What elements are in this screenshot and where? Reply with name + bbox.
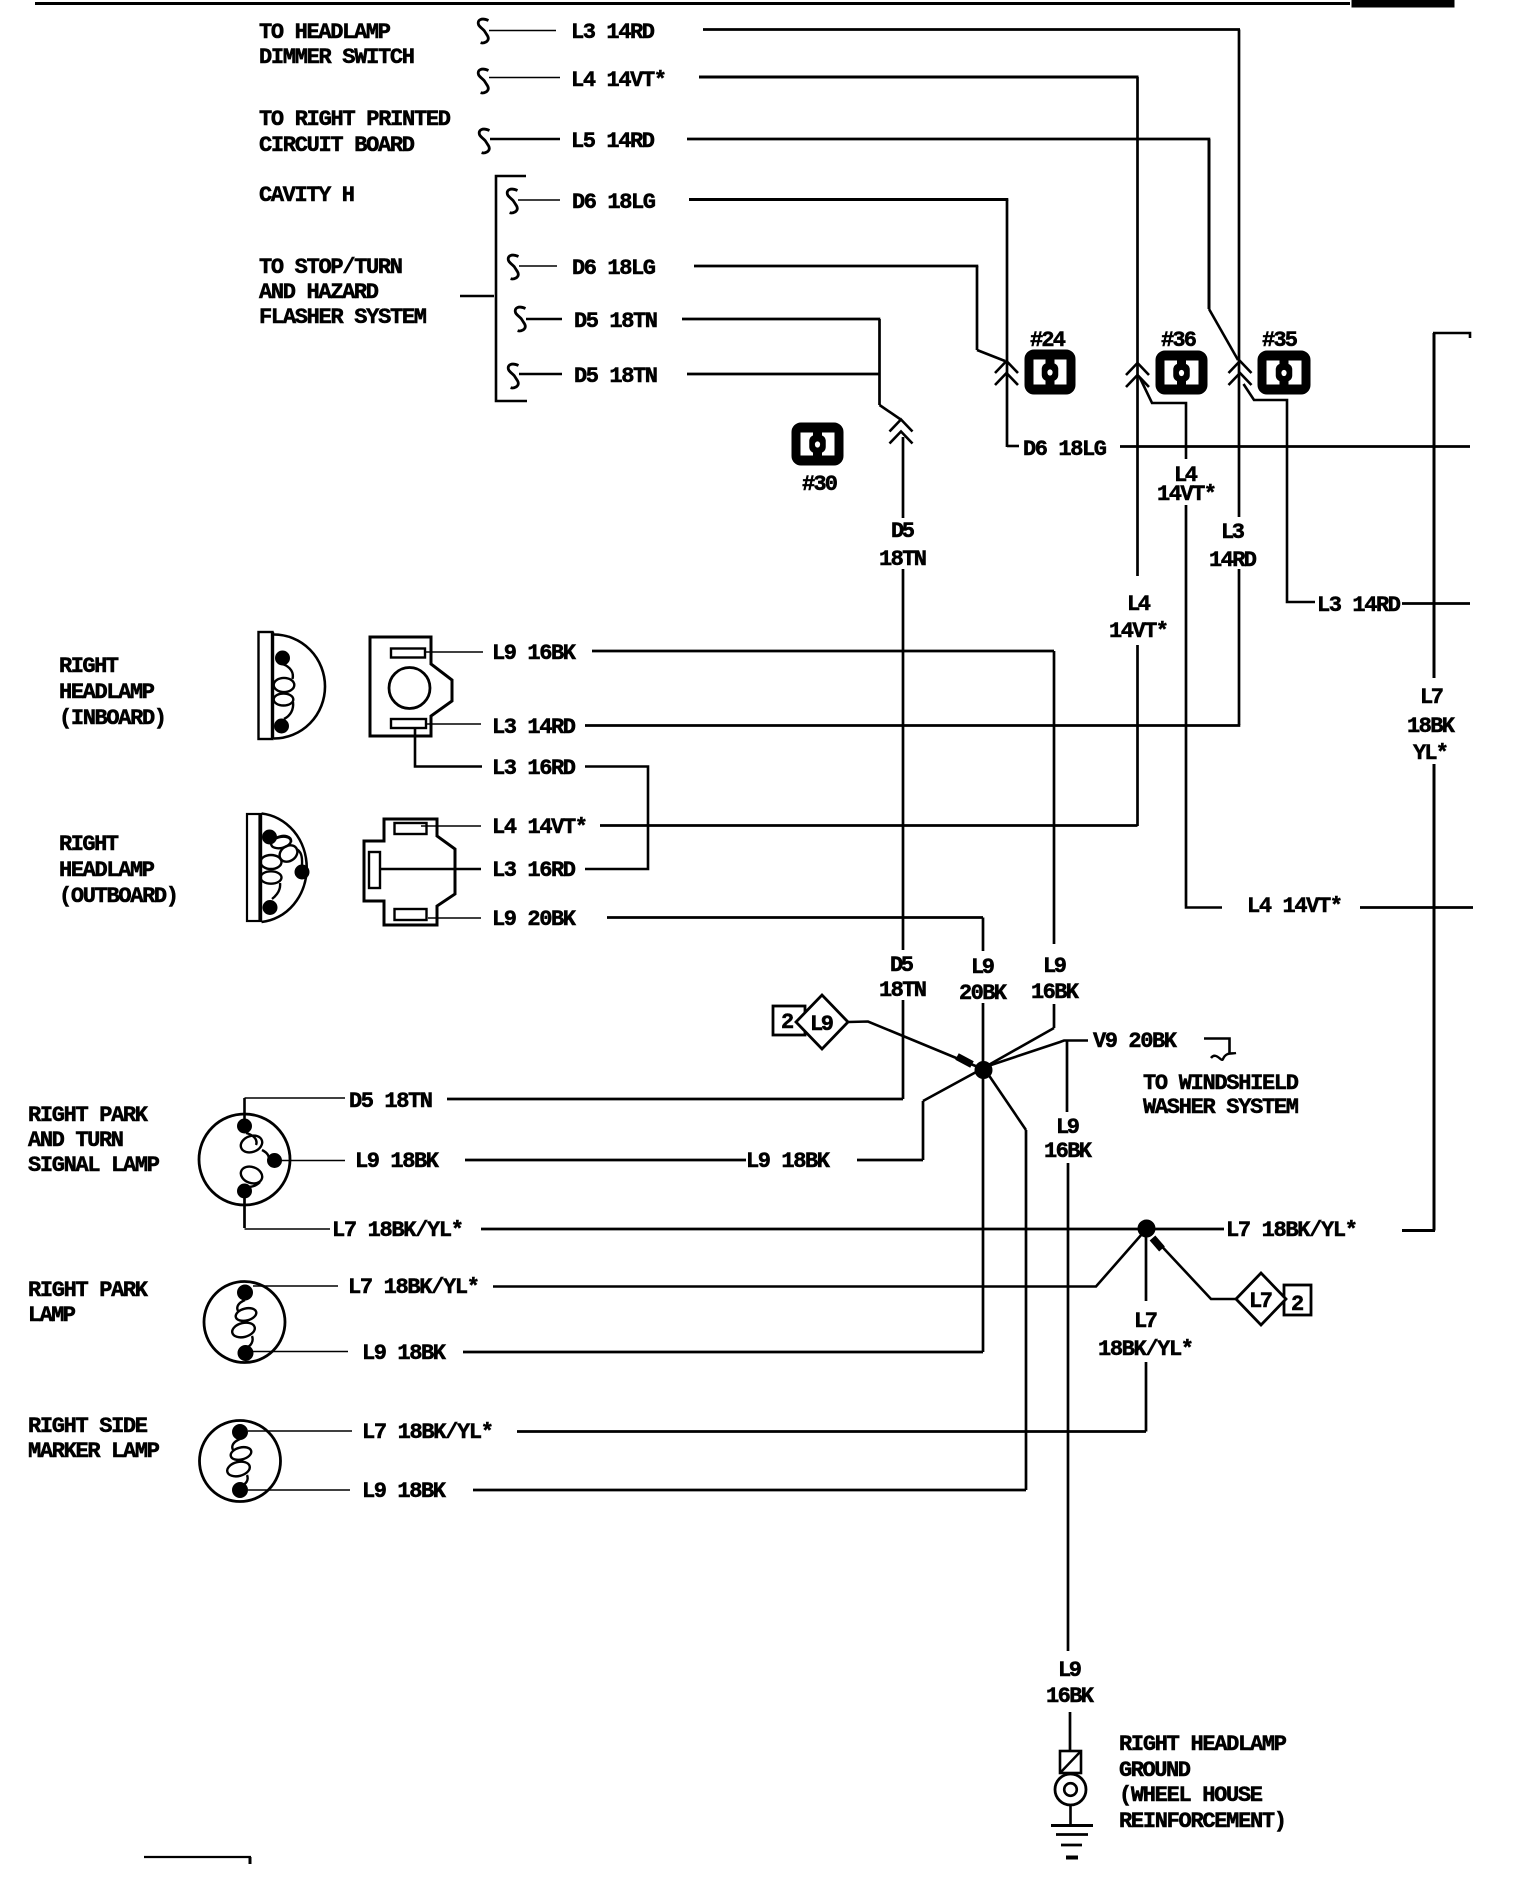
- svg-text:18TN: 18TN: [879, 547, 927, 572]
- svg-text:L9 18BK: L9 18BK: [355, 1149, 440, 1174]
- wire D6 run1 vertical: [1006, 200, 1009, 448]
- connector half-clip row7: [508, 364, 518, 388]
- wire L9 16BK corner down: [1053, 651, 1056, 944]
- svg-text:#24: #24: [1030, 328, 1066, 353]
- svg-text:(OUTBOARD): (OUTBOARD): [59, 884, 179, 909]
- splice symbol #30: [792, 423, 843, 465]
- connector half-clip row6: [515, 307, 525, 331]
- label L4/14VT* on branch: [1157, 463, 1217, 507]
- arrowhead to L9 node: [957, 1057, 972, 1065]
- svg-text:18BK/YL*: 18BK/YL*: [1098, 1337, 1194, 1362]
- text: TO HEADLAMP DIMMER SWITCH: [259, 20, 415, 70]
- svg-text:L9 16BK: L9 16BK: [492, 641, 577, 666]
- label #30: [802, 472, 838, 497]
- label L9 16BK inboard: [492, 641, 577, 666]
- connector half-clip row3: [479, 129, 489, 153]
- label L9/20BK vertical: [959, 955, 1008, 1006]
- wire diamond L9 lead: [848, 1022, 978, 1068]
- splice arrow #24: [995, 361, 1018, 385]
- wire L7 marker stub: [248, 1430, 352, 1432]
- svg-text:L9: L9: [971, 955, 995, 980]
- svg-text:RIGHT PARK: RIGHT PARK: [28, 1103, 149, 1128]
- wire D6 run2 elbow+diagonal: [977, 266, 1005, 361]
- label L9 18BK park lamp: [362, 1341, 447, 1366]
- park lamp bulb: [204, 1282, 285, 1363]
- svg-text:14VT*: 14VT*: [1109, 619, 1169, 644]
- label L4 14VT* right: [1247, 894, 1343, 919]
- label D6 18LG row4: [572, 190, 656, 215]
- svg-text:AND TURN: AND TURN: [28, 1128, 124, 1153]
- wire L3 16RD outboard stub: [380, 868, 481, 870]
- svg-text:L9 18BK: L9 18BK: [362, 1479, 447, 1504]
- label V9 20BK: [1093, 1029, 1178, 1054]
- svg-text:HEADLAMP: HEADLAMP: [59, 680, 155, 705]
- stray page line bottom-left: [144, 1857, 251, 1864]
- takeout rect 2 left: [773, 1006, 805, 1035]
- wire L9 18BK run2: [857, 1071, 978, 1160]
- wire D5 18TN lamp stub: [245, 1098, 346, 1121]
- svg-text:(INBOARD): (INBOARD): [59, 706, 167, 731]
- label #36: [1161, 328, 1197, 353]
- svg-text:L4 14VT*: L4 14VT*: [1247, 894, 1343, 919]
- text TO WINDSHIELD WASHER SYSTEM: [1143, 1071, 1299, 1120]
- wire L9 ground branch vertical: [1066, 1041, 1069, 1112]
- text RIGHT HEADLAMP (INBOARD): [59, 654, 167, 731]
- svg-text:L7: L7: [1249, 1289, 1273, 1314]
- wire L9 20BK run: [607, 916, 983, 919]
- takeout diamond L7: [1236, 1273, 1286, 1325]
- svg-text:TO RIGHT PRINTED: TO RIGHT PRINTED: [259, 107, 451, 132]
- svg-text:L3 14RD: L3 14RD: [1317, 593, 1401, 618]
- wire L4 outboard run: [600, 824, 1138, 827]
- label L4 14VT* outboard: [492, 815, 588, 840]
- text RIGHT PARK LAMP: [28, 1278, 149, 1328]
- wire L3 vertical: [1238, 30, 1241, 726]
- wire L3 14RD top run: [703, 28, 1240, 31]
- label D5 18TN lamp: [349, 1089, 433, 1114]
- wire D5 vertical segment3: [902, 1000, 905, 1099]
- text: TO STOP/TURN AND HAZARD FLASHER SYSTEM: [259, 255, 427, 330]
- svg-text:REINFORCEMENT): REINFORCEMENT): [1119, 1809, 1287, 1834]
- connector half-clip row2: [478, 69, 488, 93]
- svg-text:LAMP: LAMP: [28, 1303, 76, 1328]
- svg-text:V9 20BK: V9 20BK: [1093, 1029, 1178, 1054]
- wire L7 elbow to right vertical: [1402, 1229, 1435, 1232]
- wire D5 join verticals: [880, 319, 901, 419]
- inboard headlamp bulb: [259, 632, 326, 739]
- svg-text:RIGHT PARK: RIGHT PARK: [28, 1278, 149, 1303]
- svg-text:L7: L7: [1134, 1309, 1158, 1334]
- svg-text:L5 14RD: L5 14RD: [571, 129, 655, 154]
- svg-text:CAVITY H: CAVITY H: [259, 183, 355, 208]
- svg-text:2: 2: [1291, 1292, 1304, 1317]
- svg-text:L3 16RD: L3 16RD: [492, 858, 576, 883]
- wire L7 right vertical: [1433, 333, 1436, 1231]
- svg-text:#36: #36: [1161, 328, 1197, 353]
- text: CAVITY H: [259, 183, 355, 208]
- label L7/18BK/YL vertical right: [1407, 685, 1456, 766]
- svg-text:FLASHER SYSTEM: FLASHER SYSTEM: [259, 305, 427, 330]
- wire L9 18BK run1: [465, 1159, 746, 1162]
- wire L9 20BK corner down: [982, 918, 985, 952]
- inboard headlamp connector: [370, 637, 452, 736]
- outboard headlamp bulb: [247, 813, 309, 922]
- svg-text:L3 14RD: L3 14RD: [492, 715, 576, 740]
- text: TO RIGHT PRINTED CIRCUIT BOARD: [259, 107, 451, 158]
- wire L7 right of node: [1154, 1228, 1224, 1231]
- wire L9 ground vertical long: [1067, 1163, 1070, 1651]
- svg-text:18BK: 18BK: [1407, 714, 1456, 739]
- wire L7 park lamp stub: [253, 1285, 338, 1287]
- wire D5 vertical segment1: [902, 437, 905, 518]
- arrowhead to L7 node: [1153, 1238, 1163, 1249]
- svg-text:D5 18TN: D5 18TN: [349, 1089, 433, 1114]
- wire L9 marker run: [473, 1489, 1026, 1492]
- svg-text:RIGHT: RIGHT: [59, 832, 119, 857]
- svg-text:D5: D5: [891, 519, 915, 544]
- wire L9 marker stub: [248, 1489, 350, 1491]
- svg-text:20BK: 20BK: [959, 981, 1008, 1006]
- text RIGHT SIDE MARKER LAMP: [28, 1414, 160, 1464]
- splice arrow #30: [890, 420, 913, 444]
- wire D5 18TN run1: [682, 318, 880, 321]
- label D5 18TN row7: [574, 364, 658, 389]
- label L4 14VT* row2: [571, 68, 667, 93]
- wire D6 18LG output elbow: [1007, 445, 1019, 448]
- wire L4 14VT* top run: [699, 76, 1139, 79]
- splice symbol #36: [1156, 351, 1207, 394]
- label #35: [1262, 328, 1298, 353]
- svg-text:WASHER SYSTEM: WASHER SYSTEM: [1143, 1095, 1299, 1120]
- label L9/16BK vertical upper: [1031, 954, 1080, 1005]
- label L3 16RD outboard: [492, 858, 576, 883]
- junction node L9: [975, 1062, 992, 1079]
- wire L9 node-A vertical down: [982, 1078, 985, 1352]
- svg-text:(WHEEL HOUSE: (WHEEL HOUSE: [1119, 1783, 1263, 1808]
- label L9 18BK marker: [362, 1479, 447, 1504]
- wire L4 vertical main: [1136, 77, 1139, 826]
- outboard headlamp connector: [364, 819, 455, 925]
- wire D5 vertical segment2: [902, 569, 905, 950]
- svg-text:L7 18BK/YL*: L7 18BK/YL*: [332, 1218, 464, 1243]
- label L3 16RD inboard: [492, 756, 576, 781]
- svg-text:SIGNAL LAMP: SIGNAL LAMP: [28, 1153, 160, 1178]
- label #24: [1030, 328, 1066, 353]
- label D5/18TN upper: [879, 519, 927, 572]
- label L3 14RD row1: [571, 20, 655, 45]
- wire L3 14RD right run: [1402, 602, 1470, 605]
- svg-text:16BK: 16BK: [1044, 1139, 1093, 1164]
- bracket for flasher cavity group: [460, 176, 527, 401]
- svg-text:L3 14RD: L3 14RD: [571, 20, 655, 45]
- ground eyelet terminal: [1060, 1751, 1081, 1773]
- wire L9 park lamp stub: [253, 1351, 348, 1353]
- svg-text:L4 14VT*: L4 14VT*: [571, 68, 667, 93]
- label L9/16BK vertical mid: [1044, 1115, 1093, 1164]
- wire V9 branch: [988, 1041, 1088, 1067]
- label L7 18BK/YL* park lamp: [348, 1275, 480, 1300]
- svg-text:L3: L3: [1221, 520, 1245, 545]
- wire D6 18LG stub row5: [519, 265, 557, 267]
- svg-text:2: 2: [781, 1010, 794, 1035]
- svg-text:16BK: 16BK: [1046, 1684, 1095, 1709]
- wire right top stub: [1433, 333, 1470, 338]
- park/turn lamp bulb: [199, 1114, 290, 1205]
- svg-text:L9: L9: [1043, 954, 1067, 979]
- wire L7 main run: [481, 1228, 1140, 1231]
- junction node L7: [1138, 1220, 1155, 1237]
- label L9 18BK mid: [746, 1149, 831, 1174]
- text RIGHT HEADLAMP (OUTBOARD): [59, 832, 179, 909]
- wire L9 16BK run: [592, 650, 1054, 653]
- svg-text:L3 16RD: L3 16RD: [492, 756, 576, 781]
- ground symbol: [1051, 1826, 1093, 1858]
- wire L9 18BK park-turn stub: [281, 1160, 345, 1162]
- svg-text:L4: L4: [1127, 592, 1151, 617]
- label L7 18BK/YL* right: [1226, 1218, 1358, 1243]
- label L3/14RD vertical: [1209, 520, 1257, 573]
- wire L4 14VT* right run: [1360, 906, 1473, 909]
- svg-text:MARKER LAMP: MARKER LAMP: [28, 1439, 160, 1464]
- label L7/18BK-YL* below node: [1098, 1309, 1194, 1362]
- label L5 14RD row3: [571, 129, 655, 154]
- wire L9 marker vertical: [988, 1074, 1026, 1490]
- svg-text:TO HEADLAMP: TO HEADLAMP: [259, 20, 391, 45]
- connector half-clip row4: [507, 189, 517, 213]
- svg-text:L9 18BK: L9 18BK: [746, 1149, 831, 1174]
- wire L4 branch from splice 36: [1140, 378, 1186, 459]
- wire D6 18LG run2: [694, 265, 978, 268]
- svg-text:TO WINDSHIELD: TO WINDSHIELD: [1143, 1071, 1299, 1096]
- svg-text:D5: D5: [890, 953, 914, 978]
- svg-text:D6 18LG: D6 18LG: [572, 256, 656, 281]
- svg-text:L4 14VT*: L4 14VT*: [492, 815, 588, 840]
- svg-text:DIMMER SWITCH: DIMMER SWITCH: [259, 45, 415, 70]
- svg-text:CIRCUIT BOARD: CIRCUIT BOARD: [259, 133, 415, 158]
- svg-text:RIGHT: RIGHT: [59, 654, 119, 679]
- wire L4 14VT* stub row2: [489, 77, 560, 79]
- label L3 14RD right: [1317, 593, 1401, 618]
- wire L3 14RD inboard stub: [427, 723, 481, 725]
- label L7 18BK/YL* park-turn: [332, 1218, 464, 1243]
- svg-text:14VT*: 14VT*: [1157, 482, 1217, 507]
- wire L7 park lamp diagonal: [493, 1234, 1142, 1287]
- wire L7 park-turn elbow: [245, 1196, 331, 1229]
- svg-text:14RD: 14RD: [1209, 548, 1257, 573]
- wire D5 18TN stub row6: [526, 318, 562, 321]
- wire L7 node vertical down: [1145, 1237, 1148, 1301]
- wire D5 18TN run2: [687, 373, 880, 376]
- text RIGHT HEADLAMP GROUND (WHEEL HOUSE REINFORCEMENT): [1119, 1732, 1287, 1834]
- label D6 18LG row5: [572, 256, 656, 281]
- wire L9 20BK outboard stub: [428, 917, 481, 919]
- wire L5 14RD run: [687, 138, 1210, 141]
- wire D6 18LG stub row4: [518, 199, 560, 201]
- svg-text:GROUND: GROUND: [1119, 1758, 1191, 1783]
- svg-text:16BK: 16BK: [1031, 980, 1080, 1005]
- svg-text:D6 18LG: D6 18LG: [1023, 437, 1107, 462]
- label D5/18TN lower: [879, 953, 927, 1003]
- wire diamond L7 lead: [1154, 1238, 1236, 1299]
- svg-text:L7 18BK/YL*: L7 18BK/YL*: [348, 1275, 480, 1300]
- splice arrow #35: [1229, 361, 1252, 385]
- label D6 18LG mid: [1023, 437, 1107, 462]
- wire L5 elbow+diagonal into splice 35: [1209, 139, 1238, 360]
- wire L5 14RD stub row3: [490, 138, 560, 141]
- svg-text:#35: #35: [1262, 328, 1298, 353]
- wire L7 vertical to marker: [1145, 1362, 1148, 1432]
- wire L3 14RD stub row1: [489, 30, 556, 32]
- svg-text:L9 18BK: L9 18BK: [362, 1341, 447, 1366]
- label L9 18BK park-turn: [355, 1149, 440, 1174]
- svg-text:RIGHT SIDE: RIGHT SIDE: [28, 1414, 148, 1439]
- svg-text:HEADLAMP: HEADLAMP: [59, 858, 155, 883]
- wire D6 18LG run1: [689, 198, 1008, 201]
- marker lamp bulb: [200, 1421, 281, 1502]
- wire D5 18TN stub row7: [519, 373, 562, 376]
- wire L4 branch vertical lower: [1185, 505, 1188, 906]
- wire L4 outboard stub: [421, 825, 481, 827]
- svg-text:YL*: YL*: [1413, 741, 1449, 766]
- label L9/16BK vertical bottom: [1046, 1658, 1095, 1709]
- svg-text:L9: L9: [1056, 1115, 1080, 1140]
- splice symbol #24: [1025, 350, 1075, 394]
- label L4/14VT* on main vertical: [1109, 592, 1169, 644]
- wire D6 18LG long run: [1120, 445, 1470, 448]
- ground ring terminal: [1055, 1774, 1086, 1825]
- svg-text:L9: L9: [1058, 1658, 1082, 1683]
- wire L3 branch from splice 35: [1244, 384, 1316, 602]
- takeout diamond L9: [796, 995, 848, 1049]
- wire L9 park lamp run: [463, 1351, 983, 1354]
- wire L3 16RD inboard branch: [415, 728, 482, 767]
- svg-text:#30: #30: [802, 472, 838, 497]
- off-page hook windshield: [1204, 1039, 1236, 1060]
- label L3 14RD inboard: [492, 715, 576, 740]
- svg-text:18TN: 18TN: [879, 978, 927, 1003]
- svg-text:RIGHT HEADLAMP: RIGHT HEADLAMP: [1119, 1732, 1287, 1757]
- svg-text:D6 18LG: D6 18LG: [572, 190, 656, 215]
- wire L3 14RD lamp run: [585, 724, 1240, 727]
- svg-text:D5 18TN: D5 18TN: [574, 364, 658, 389]
- wire L4 branch elbow right: [1186, 906, 1222, 908]
- wire L7 marker run: [517, 1430, 1146, 1433]
- text RIGHT PARK AND TURN SIGNAL LAMP: [28, 1103, 160, 1178]
- splice arrow #36: [1126, 363, 1149, 387]
- svg-text:TO STOP/TURN: TO STOP/TURN: [259, 255, 403, 280]
- page header bar: [35, 0, 1454, 7]
- svg-text:L7 18BK/YL*: L7 18BK/YL*: [1226, 1218, 1358, 1243]
- splice symbol #35: [1258, 351, 1310, 394]
- label L9 20BK outboard: [492, 907, 577, 932]
- wire L3 16RD jumper: [585, 767, 648, 870]
- svg-text:L7: L7: [1420, 685, 1444, 710]
- svg-text:D5 18TN: D5 18TN: [574, 309, 658, 334]
- wire L9 20BK to node: [982, 1003, 985, 1063]
- connector half-clip row5: [508, 255, 518, 279]
- wire L9 16BK to node diagonal: [985, 1004, 1054, 1067]
- wire D5 18TN lamp run: [447, 1098, 903, 1101]
- svg-text:AND HAZARD: AND HAZARD: [259, 280, 379, 305]
- svg-text:L9 20BK: L9 20BK: [492, 907, 577, 932]
- label D5 18TN row6: [574, 309, 658, 334]
- svg-text:L9: L9: [810, 1012, 834, 1037]
- wire L9 16BK inboard stub: [426, 651, 483, 653]
- svg-text:L7 18BK/YL*: L7 18BK/YL*: [362, 1420, 494, 1445]
- takeout rect 2 right: [1284, 1285, 1311, 1317]
- wire L9 ground final: [1069, 1712, 1072, 1751]
- connector half-clip row1: [478, 19, 488, 43]
- label L7 18BK/YL* marker: [362, 1420, 494, 1445]
